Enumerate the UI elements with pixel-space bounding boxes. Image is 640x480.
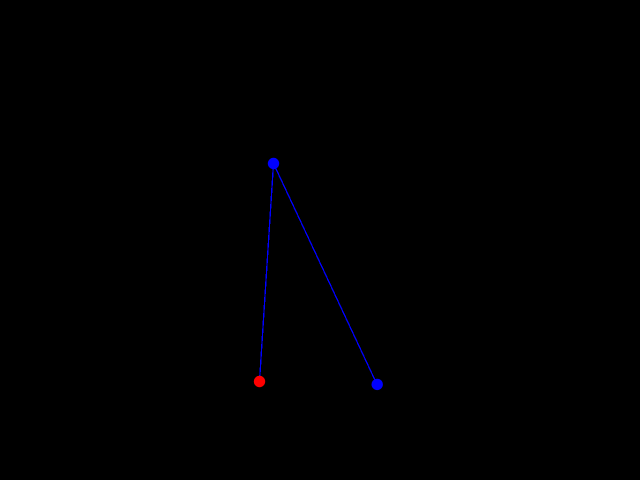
wire: edge from node A (top) to node B (red) bbox=[260, 164, 274, 382]
wire: edge from node A (top) to node C (bottom right) bbox=[274, 164, 378, 385]
node C: blue dot (bottom right) bbox=[372, 379, 383, 390]
node B: red dot (bottom left) bbox=[254, 376, 265, 387]
node A: top blue dot bbox=[268, 158, 279, 169]
